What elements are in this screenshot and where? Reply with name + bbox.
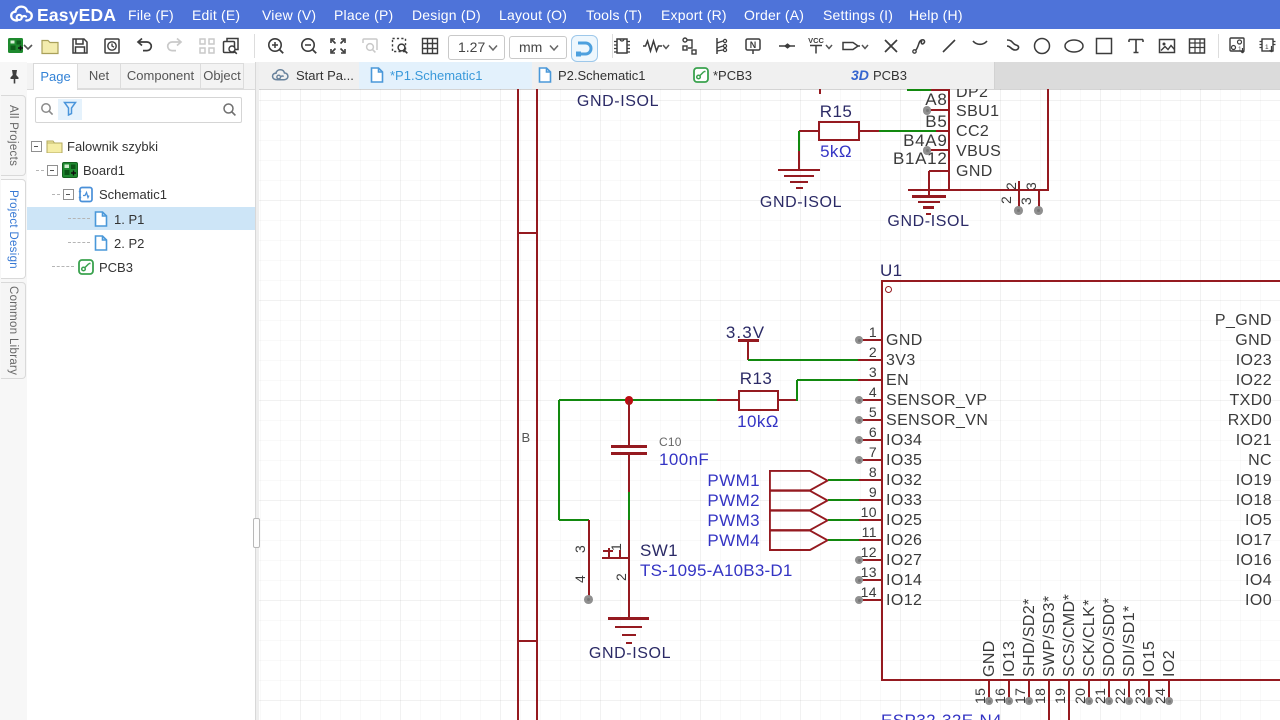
svg-text:N: N [750,40,757,50]
svg-text:1: 1 [1265,44,1269,51]
